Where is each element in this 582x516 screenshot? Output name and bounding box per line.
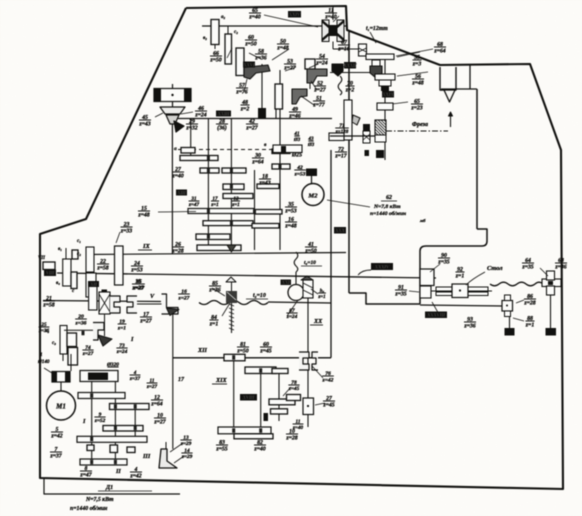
svg-text:Фреза: Фреза <box>412 122 428 128</box>
svg-text:VIII: VIII <box>46 271 55 277</box>
svg-text:z=42: z=42 <box>50 434 62 440</box>
svg-text:z=45: z=45 <box>259 349 271 355</box>
svg-text:z=1: z=1 <box>525 323 535 329</box>
svg-text:z=36: z=36 <box>38 328 50 334</box>
svg-text:c₁: c₁ <box>77 239 81 244</box>
svg-text:z=48: z=48 <box>411 81 423 87</box>
svg-text:IX: IX <box>142 243 150 250</box>
svg-text:z=27: z=27 <box>146 384 158 390</box>
svg-text:XXVI: XXVI <box>242 62 255 68</box>
svg-text:c₂: c₂ <box>234 30 238 35</box>
svg-text:c₂: c₂ <box>77 252 81 257</box>
svg-text:XII: XII <box>89 282 97 288</box>
svg-text:Стол: Стол <box>487 265 503 272</box>
svg-text:XXXII: XXXII <box>343 63 357 69</box>
svg-text:z=50: z=50 <box>304 249 316 255</box>
svg-text:z=43: z=43 <box>258 181 270 187</box>
svg-text:n=1440 об/мин: n=1440 об/мин <box>370 210 406 217</box>
svg-text:в₄: в₄ <box>56 281 60 286</box>
svg-text:z=42: z=42 <box>322 377 334 383</box>
svg-text:z=1: z=1 <box>317 295 325 300</box>
svg-text:z=50: z=50 <box>244 42 256 48</box>
svg-text:M1: M1 <box>55 403 66 411</box>
svg-text:z=42: z=42 <box>129 474 141 480</box>
svg-text:z=52: z=52 <box>94 418 106 424</box>
svg-text:t₂=10: t₂=10 <box>253 293 266 299</box>
svg-text:I: I <box>130 336 134 343</box>
svg-text:z=24: z=24 <box>315 61 327 67</box>
svg-text:z=53: z=53 <box>130 268 142 274</box>
svg-text:t₄=10: t₄=10 <box>304 260 316 266</box>
svg-text:z=40: z=40 <box>253 447 265 453</box>
svg-text:z=24: z=24 <box>116 349 128 355</box>
svg-text:z=53: z=53 <box>294 171 306 177</box>
svg-text:Ø3: Ø3 <box>293 137 301 143</box>
svg-text:N=7,5 кВт: N=7,5 кВт <box>85 497 114 503</box>
svg-text:z=32: z=32 <box>185 126 197 132</box>
svg-text:z=58: z=58 <box>42 303 54 309</box>
svg-text:XIX: XIX <box>215 377 228 384</box>
svg-text:z=28: z=28 <box>523 301 535 307</box>
svg-text:z=1: z=1 <box>231 202 240 208</box>
svg-text:z=40: z=40 <box>171 174 183 180</box>
svg-text:II: II <box>115 468 121 475</box>
svg-text:z=3: z=3 <box>412 62 422 68</box>
svg-text:z=27: z=27 <box>139 319 152 325</box>
svg-text:z=16: z=16 <box>337 47 349 53</box>
svg-text:z=53: z=53 <box>284 209 296 215</box>
svg-text:z=23: z=23 <box>410 106 422 112</box>
svg-text:z=64: z=64 <box>433 49 445 55</box>
svg-text:XIII: XIII <box>176 190 186 196</box>
svg-text:z=36: z=36 <box>75 320 87 326</box>
svg-text:17: 17 <box>178 377 185 383</box>
svg-text:z=2: z=2 <box>345 88 355 94</box>
svg-text:в₂: в₂ <box>203 36 207 41</box>
svg-text:мб: мб <box>419 218 426 223</box>
svg-text:z=128: z=128 <box>335 129 349 135</box>
svg-text:z=2: z=2 <box>240 107 250 113</box>
svg-text:XVIII: XVIII <box>242 395 255 401</box>
svg-text:z=47: z=47 <box>79 473 92 479</box>
svg-text:1: 1 <box>40 353 43 358</box>
svg-text:N=7,8 кВт: N=7,8 кВт <box>373 204 401 210</box>
svg-text:z=50: z=50 <box>209 58 221 64</box>
svg-text:Д1: Д1 <box>105 485 113 491</box>
svg-text:z=37: z=37 <box>49 454 62 460</box>
svg-text:z=1: z=1 <box>455 274 465 280</box>
svg-text:z=64: z=64 <box>150 402 162 408</box>
svg-text:в₁: в₁ <box>58 247 62 252</box>
svg-text:XII: XII <box>197 347 208 354</box>
svg-text:z=36: z=36 <box>554 265 566 271</box>
svg-text:z=58: z=58 <box>96 266 108 272</box>
svg-text:a: a <box>174 146 177 152</box>
svg-text:z=33: z=33 <box>120 229 132 235</box>
svg-text:n=1440 об/мин: n=1440 об/мин <box>70 505 108 512</box>
svg-text:z=36: z=36 <box>463 324 475 330</box>
svg-text:z=37: z=37 <box>129 376 141 382</box>
svg-text:a₂: a₂ <box>221 15 226 20</box>
svg-text:z=64: z=64 <box>251 160 263 166</box>
svg-text:XXIX: XXIX <box>381 92 394 98</box>
svg-text:62: 62 <box>386 195 392 201</box>
svg-text:z=35: z=35 <box>521 265 533 271</box>
svg-text:XXX: XXX <box>334 228 345 234</box>
svg-text:z=35: z=35 <box>394 292 406 298</box>
svg-text:z=47: z=47 <box>188 202 200 208</box>
svg-text:z=50: z=50 <box>236 349 248 355</box>
svg-text:z=55: z=55 <box>215 447 227 453</box>
svg-text:XXIII: XXIII <box>217 111 230 117</box>
svg-text:z=17: z=17 <box>334 154 347 160</box>
svg-text:z=27: z=27 <box>82 351 94 357</box>
svg-text:z=27: z=27 <box>133 285 145 291</box>
svg-text:z=27: z=27 <box>178 295 190 301</box>
svg-text:z=1: z=1 <box>117 325 126 331</box>
svg-text:XXIV: XXIV <box>288 12 301 18</box>
svg-text:XXI: XXI <box>281 280 290 286</box>
svg-text:z=76: z=76 <box>235 90 247 96</box>
svg-text:I: I <box>82 418 86 425</box>
svg-text:z=27: z=27 <box>153 420 166 426</box>
svg-text:z=77: z=77 <box>312 103 325 109</box>
svg-text:c₃: c₃ <box>52 341 56 346</box>
svg-text:Ø140: Ø140 <box>37 359 50 365</box>
svg-text:z=40: z=40 <box>292 425 304 431</box>
svg-text:z=43: z=43 <box>138 122 150 128</box>
svg-text:VII: VII <box>38 256 45 261</box>
svg-text:z=1: z=1 <box>210 202 219 208</box>
svg-text:z=27: z=27 <box>245 126 258 132</box>
svg-text:III: III <box>142 453 151 460</box>
svg-text:z=27: z=27 <box>313 88 326 94</box>
svg-text:z=48: z=48 <box>284 224 296 230</box>
svg-text:Ø25: Ø25 <box>291 153 302 159</box>
svg-text:z=48: z=48 <box>137 213 149 219</box>
svg-text:z=40: z=40 <box>248 15 260 21</box>
svg-text:z=1: z=1 <box>209 322 219 328</box>
svg-text:z=24: z=24 <box>194 113 206 119</box>
svg-text:z=28: z=28 <box>285 436 297 442</box>
svg-text:(36): (36) <box>217 125 227 132</box>
svg-text:M2: M2 <box>307 193 318 200</box>
svg-text:XXXVIII: XXXVIII <box>426 313 445 319</box>
svg-text:XX: XX <box>313 318 323 325</box>
svg-text:Ø3: Ø3 <box>307 142 315 148</box>
svg-text:t₁=12mm: t₁=12mm <box>366 26 388 32</box>
svg-text:z=46: z=46 <box>288 114 300 120</box>
svg-text:XXXIV: XXXIV <box>374 264 390 270</box>
svg-text:z=28: z=28 <box>171 249 183 255</box>
